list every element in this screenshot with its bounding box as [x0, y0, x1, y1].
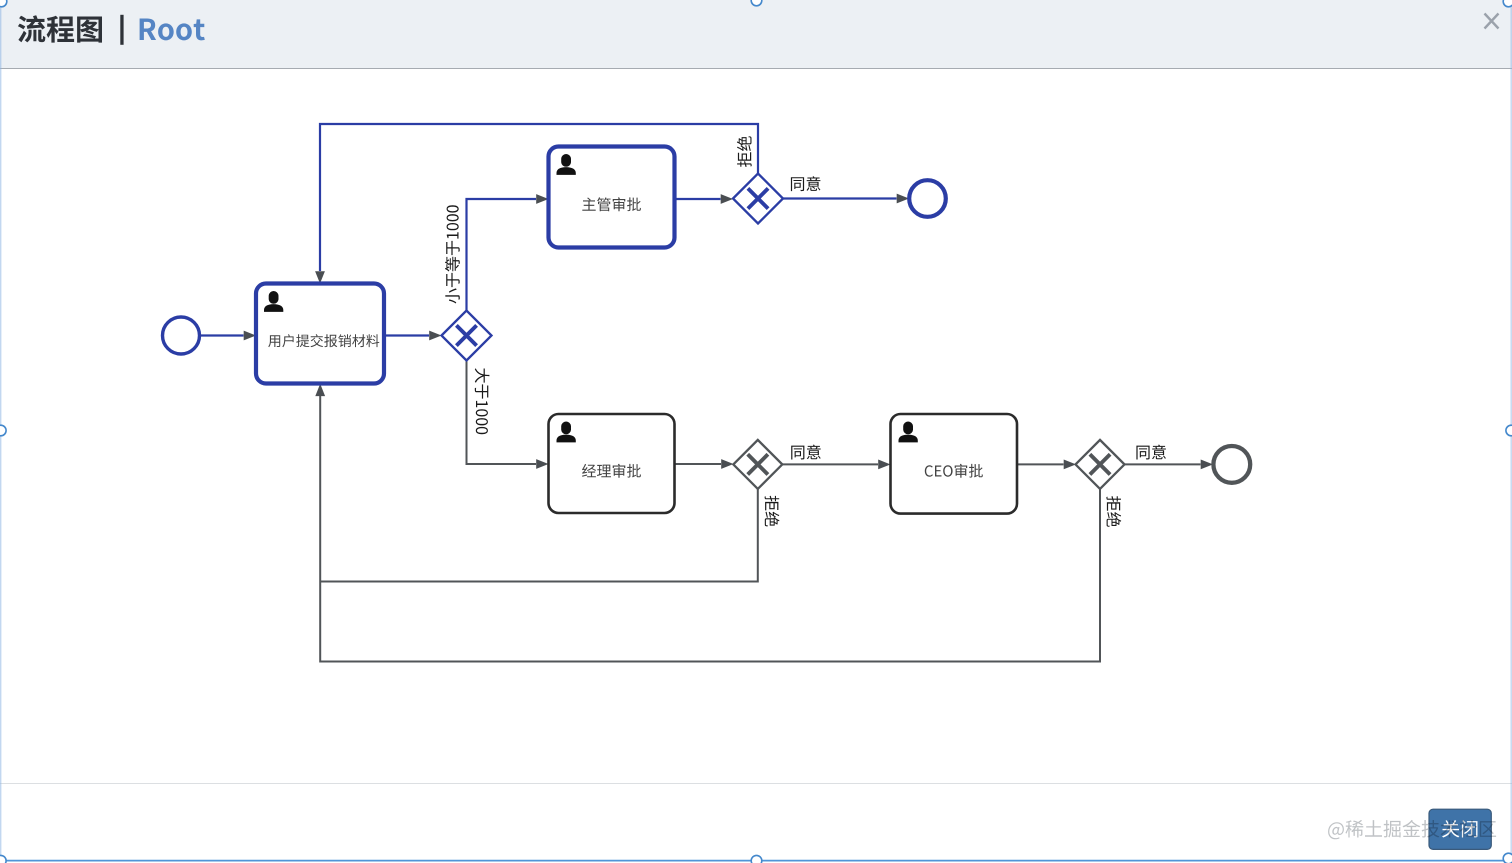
selection outline left	[0, 0, 2, 863]
selection outline right	[1510, 0, 1512, 863]
gateway1 exclusive	[442, 311, 492, 361]
selection handle right-middle	[1506, 425, 1512, 436]
task 用户提交报销材料	[256, 284, 384, 384]
wire: gateway4 to end event bottom (同意)	[1125, 460, 1214, 470]
button 关闭	[1429, 809, 1491, 849]
wire: start event to task 用户提交报销材料	[200, 331, 257, 341]
task 经理审批	[549, 414, 675, 513]
wire: task CEO审批 to gateway4	[1017, 460, 1076, 470]
selection handle top-right	[1503, 0, 1512, 7]
watermark @稀土掘金技术社区	[1328, 820, 1496, 839]
start event circle	[163, 317, 200, 354]
gateway2 exclusive	[733, 174, 783, 224]
label 同意 middle	[791, 445, 821, 460]
selection outline bottom	[0, 860, 1512, 862]
close button X	[1485, 14, 1499, 29]
label 同意 top	[791, 176, 821, 191]
wire: task 用户提交报销材料 to gateway1	[384, 331, 442, 341]
selection handle bottom-right	[1503, 853, 1512, 863]
wire: gateway1 down to task 经理审批 (大于1000)	[467, 361, 549, 469]
wire: gateway3 reject loop down-left (拒绝)	[320, 489, 758, 582]
label 小于等于1000	[445, 205, 460, 303]
end event circle top	[909, 180, 946, 217]
wire: gateway1 up to task 主管审批	[467, 194, 549, 310]
task CEO审批	[891, 414, 1018, 514]
label 拒绝 middle	[765, 496, 780, 527]
gateway4 exclusive	[1076, 440, 1125, 489]
task 主管审批	[549, 147, 675, 248]
label 同意 right	[1136, 445, 1166, 460]
wire: gateway3 to task CEO审批 (同意)	[782, 460, 891, 470]
selection handle bottom-middle	[751, 855, 762, 863]
dialog footer bar	[0, 783, 1512, 863]
selection handle top-middle	[751, 0, 762, 6]
selection handle left-middle	[0, 425, 6, 436]
gateway3 exclusive	[733, 440, 782, 489]
label 拒绝 top	[737, 136, 752, 167]
header title Root	[140, 19, 205, 41]
selection handle bottom-left	[0, 855, 6, 863]
wire: gateway2 reject loop to task1 top (拒绝)	[315, 124, 758, 284]
wire: gateway4 reject loop back to task1 bottom (拒绝)	[315, 384, 1100, 662]
label 大于1000	[475, 368, 490, 434]
wire: task 主管审批 to gateway2	[675, 194, 734, 204]
label 拒绝 right	[1106, 496, 1121, 527]
header title 流程图	[18, 15, 102, 42]
wire: gateway2 to end event top (同意)	[783, 194, 909, 204]
dialog header bar	[0, 0, 1512, 69]
end event circle bottom	[1213, 446, 1250, 483]
selection handle top-left	[0, 0, 7, 7]
wire: task 经理审批 to gateway3	[675, 459, 734, 469]
header separator bar	[120, 15, 123, 45]
